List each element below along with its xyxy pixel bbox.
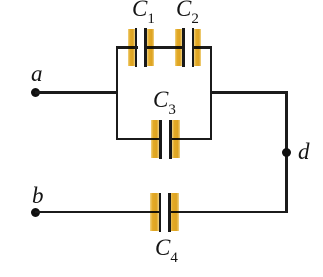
node b (31, 208, 40, 217)
wire a to rectangle left (35, 91, 118, 93)
label b (32, 184, 44, 207)
node d (282, 148, 291, 157)
node a (31, 88, 40, 97)
capacitor C1 (0, 0, 1, 1)
capacitor C4 (0, 0, 1, 1)
label a (31, 62, 43, 85)
wire b to far right (35, 211, 287, 213)
wire rectangle bottom side (116, 138, 213, 140)
label C1 (132, 0, 155, 20)
wire right vertical down to d and b-line (285, 91, 287, 213)
wire rectangle right vertical (210, 46, 212, 140)
wire rectangle top side (116, 46, 213, 48)
capacitor C3 (0, 0, 1, 1)
label d (298, 140, 310, 163)
label C4 (155, 236, 178, 259)
capacitor C2 (0, 0, 1, 1)
wire rectangle left vertical (116, 46, 118, 140)
label C2 (176, 0, 199, 20)
wire rectangle right to far right (210, 91, 288, 93)
label C3 (153, 88, 176, 111)
